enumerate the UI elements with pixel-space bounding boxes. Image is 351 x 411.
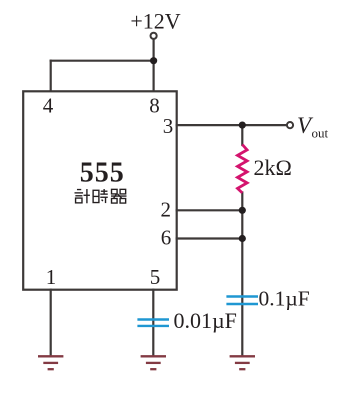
svg-text:out: out: [312, 126, 329, 141]
svg-text:+12V: +12V: [130, 9, 180, 34]
svg-text:2kΩ: 2kΩ: [254, 155, 292, 180]
svg-text:3: 3: [163, 114, 174, 138]
svg-text:2: 2: [160, 198, 171, 222]
svg-text:5: 5: [150, 265, 161, 289]
svg-text:0.01µF: 0.01µF: [174, 308, 237, 333]
svg-text:6: 6: [161, 226, 172, 250]
svg-text:555: 555: [80, 157, 125, 188]
svg-text:4: 4: [43, 94, 54, 118]
svg-text:1: 1: [46, 265, 57, 289]
svg-text:0.1µF: 0.1µF: [259, 287, 310, 311]
svg-text:8: 8: [149, 94, 160, 118]
